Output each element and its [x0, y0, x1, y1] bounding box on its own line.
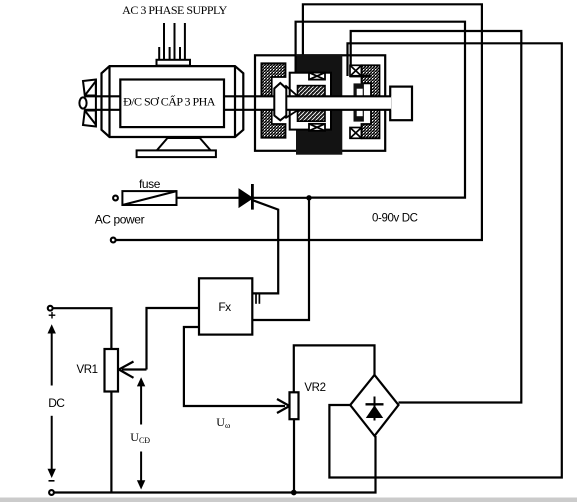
shaft band [257, 96, 392, 110]
label: + [49, 312, 56, 319]
motor shaft end (ellipse) [79, 97, 86, 108]
brush link lower [285, 110, 298, 118]
svg-text:UCĐ: UCĐ [130, 430, 150, 445]
field winding block (black) [296, 54, 342, 154]
wire: Fx to VR2 wiper (U omega) [184, 327, 285, 406]
commutator / coupling [274, 83, 286, 120]
fuse F1 [122, 191, 176, 205]
winding box upper (X) [309, 73, 325, 80]
motor M1 nameplate [120, 80, 224, 128]
wire: slip ring B to bridge left [329, 43, 561, 477]
svg-text:AC 3 PHASE SUPPLY: AC 3 PHASE SUPPLY [122, 3, 227, 17]
svg-text:0-90v DC: 0-90v DC [372, 213, 418, 225]
wire: 3-phase supply leads (tall) [164, 23, 185, 60]
wire: SCR gate [252, 200, 278, 293]
gate connector ticks [256, 295, 259, 304]
VR1 wiper arrow to Fx [147, 308, 200, 370]
wire: slip ring A to bridge right [351, 31, 522, 403]
motor shaft (fan side) [85, 96, 121, 110]
U_CD arrow (double headed) [140, 380, 142, 425]
winding box lower (X) [309, 124, 325, 131]
motor M1 terminal box [157, 60, 191, 66]
wire: VR2 top to bridge top [294, 345, 375, 392]
DC arrow (double headed) [51, 327, 53, 475]
generator G1 outer frame [255, 55, 385, 151]
wire stub: slip ring B inside frame [346, 56, 348, 76]
label: - [49, 480, 55, 482]
svg-text:DC: DC [48, 396, 65, 410]
control block Fx [199, 278, 252, 334]
motor stand [137, 138, 216, 157]
brush link upper [285, 85, 298, 96]
slip ring assembly [354, 83, 364, 121]
wire: 3-phase supply leads (short) [159, 47, 180, 60]
node: SCR output junction [306, 195, 311, 200]
motor M1 body (3-phase primary motor) [102, 66, 244, 137]
wire stub: slip ring A inside frame [350, 56, 352, 66]
svg-text:VR2: VR2 [304, 382, 325, 394]
wire: brush A to thyristor line [296, 22, 465, 198]
wire: junction to Fx input [252, 198, 309, 320]
stator yoke left (hatched C) [261, 63, 285, 137]
wire: VR2 bottom to rail [293, 419, 295, 492]
VR1 potentiometer body [105, 349, 119, 392]
terminal: DC + [48, 306, 53, 311]
diode D1 inside bridge [374, 397, 376, 421]
svg-text:VR1: VR1 [77, 364, 98, 376]
shaft lines [224, 96, 391, 110]
terminal: AC line (lower) [111, 238, 116, 243]
bearing seat bar [350, 75, 371, 78]
svg-text:AC power: AC power [95, 213, 145, 227]
wire stub: brush A inside frame [295, 56, 297, 72]
node: VR2 bottom rail junction [291, 490, 297, 496]
terminal: AC line (upper) [113, 196, 118, 201]
stator yoke right (hatched C) [362, 65, 380, 138]
wire: SCR to junction [253, 197, 310, 199]
thyristor SCR [239, 189, 253, 207]
SCR cathode bar [251, 184, 254, 210]
terminal: DC - [49, 490, 54, 495]
shaft end cap [390, 87, 412, 121]
bearing upper right (X) [350, 65, 362, 76]
VR2 potentiometer body [290, 392, 299, 419]
svg-text:Uω: Uω [216, 415, 230, 430]
rotor lamination upper (hatched) [298, 86, 326, 97]
wire: brush B to AC return [114, 4, 482, 240]
bottom grey band [0, 498, 577, 502]
wire: bottom rail [54, 436, 376, 493]
svg-text:fuse: fuse [139, 177, 161, 191]
svg-text:Đ/C SƠ CẤP 3 PHA: Đ/C SƠ CẤP 3 PHA [123, 94, 216, 109]
svg-text:Fx: Fx [218, 300, 231, 314]
motor fan blades [83, 80, 96, 127]
bearing lower right (X) [350, 128, 362, 139]
bridge rectifier (diamond) [350, 375, 398, 436]
armature window [290, 73, 331, 130]
wire: VR1 bottom to rail [110, 392, 112, 493]
wire: fuse to SCR [177, 197, 240, 199]
wire: + to VR1 top [53, 308, 112, 349]
rotor lamination lower (hatched) [298, 111, 326, 122]
